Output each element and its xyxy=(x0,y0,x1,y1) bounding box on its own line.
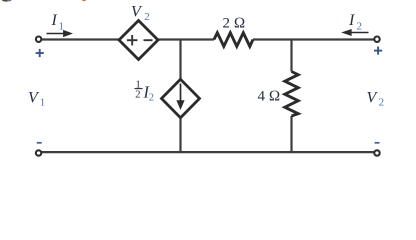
wire: top rail right segment (2-ohm resistor to right terminal) xyxy=(253,38,374,40)
svg-text:2: 2 xyxy=(357,21,363,33)
wire: vertical from 4-ohm resistor to bottom rail xyxy=(290,116,292,152)
terminal: bottom-right open circle xyxy=(374,150,379,155)
svg-text:2: 2 xyxy=(379,97,385,109)
cut-off glyph fragment top-left xyxy=(2,0,11,2)
polarity plus (left port) xyxy=(36,49,44,57)
svg-text:1: 1 xyxy=(40,97,46,109)
minus sign inside source xyxy=(144,39,153,41)
svg-text:4 Ω: 4 Ω xyxy=(258,89,281,105)
svg-text:1: 1 xyxy=(59,21,65,33)
cut-off glyph fragment top-middle xyxy=(82,0,86,1)
svg-text:V: V xyxy=(367,89,379,106)
current arrow I2 (pointing left) xyxy=(341,29,368,36)
svg-text:2: 2 xyxy=(149,93,154,104)
label 1/2 I2 (controlling gain of CCCS) xyxy=(135,80,155,104)
terminal: bottom-left open circle xyxy=(36,150,41,155)
wire: bottom rail xyxy=(41,151,374,153)
svg-text:I: I xyxy=(51,12,58,29)
current arrow I1 (pointing right) xyxy=(47,30,74,37)
wire: top rail left segment (left terminal to V2 source) xyxy=(41,38,120,40)
svg-text:2: 2 xyxy=(144,11,150,23)
svg-text:2: 2 xyxy=(135,90,140,101)
svg-text:V: V xyxy=(28,89,40,106)
plus sign inside source xyxy=(127,39,138,41)
dependent voltage source V2 (diamond) xyxy=(119,21,158,60)
polarity minus (right port) xyxy=(375,142,380,144)
dependent current source 1/2 I2 (diamond with down arrow) xyxy=(162,79,200,117)
wire: vertical from CCCS bottom to bottom rail xyxy=(179,117,181,152)
terminal: top-left open circle xyxy=(36,37,41,42)
wire: vertical from node B down to 4-ohm resistor xyxy=(290,40,292,72)
wire: top rail middle segment (V2 source to 2-ohm resistor) xyxy=(157,38,215,40)
resistor 2 ohm (horizontal zigzag) xyxy=(214,33,253,47)
svg-text:2 Ω: 2 Ω xyxy=(223,15,246,31)
wire: vertical from node A down to CCCS top xyxy=(179,40,181,81)
polarity plus (right port) xyxy=(374,47,382,55)
resistor 4 ohm (vertical zigzag) xyxy=(285,72,298,117)
polarity minus (left port) xyxy=(37,142,42,144)
svg-text:I: I xyxy=(348,12,355,29)
svg-text:V: V xyxy=(131,4,143,21)
arrow inside current source xyxy=(180,84,182,104)
terminal: top-right open circle xyxy=(374,37,379,42)
